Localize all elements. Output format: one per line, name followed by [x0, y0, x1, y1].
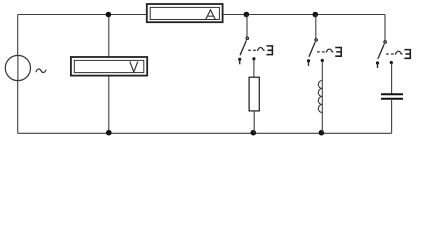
inductor L1 [318, 81, 322, 113]
wire switch S3 feed [384, 15, 386, 41]
node bottom rail / voltmeter junction [106, 130, 112, 136]
wire switch S1 feed [246, 15, 248, 38]
node bottom rail / inductor branch junction [319, 130, 325, 136]
wire voltmeter branch lower [108, 76, 110, 134]
node top rail / inductor branch junction [313, 12, 319, 18]
wire top rail left segment [18, 14, 147, 16]
ac source G1 [5, 55, 46, 80]
node top rail / voltmeter junction [106, 12, 112, 18]
switch S1 [238, 37, 272, 64]
voltmeter V [71, 57, 147, 76]
capacitor C1 [381, 94, 403, 99]
wire switch S2 feed [315, 15, 317, 39]
wire bottom rail [18, 132, 392, 134]
wire voltmeter branch upper [108, 15, 110, 58]
wire S3 to capacitor [391, 63, 393, 94]
wire capacitor to bottom rail [391, 100, 393, 134]
resistor R1 [249, 77, 259, 111]
wire S1 to resistor [253, 59, 255, 77]
node bottom rail / resistor branch junction [251, 130, 257, 136]
wire S2 to inductor and through to bottom rail [321, 61, 323, 134]
switch S2 [307, 39, 341, 66]
wire resistor to bottom rail [253, 111, 255, 133]
wire top rail right segment [223, 14, 385, 16]
node top rail / resistor branch junction [244, 12, 250, 18]
ammeter A [147, 4, 223, 22]
switch S3 [376, 41, 410, 68]
wire left rail [17, 15, 19, 134]
